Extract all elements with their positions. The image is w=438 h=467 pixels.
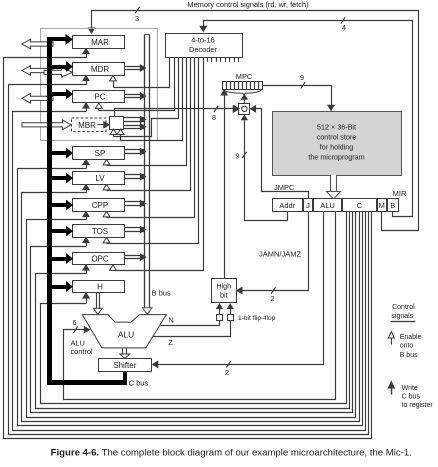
wire: PC output onto B bus [124, 93, 146, 99]
register CPP [73, 199, 125, 212]
write arrow into SP [83, 159, 89, 168]
C bus thick bottom segment [47, 371, 127, 385]
register LV [73, 172, 125, 185]
write arrow into LV [83, 184, 89, 192]
C bus thick arrow into OPC [52, 254, 72, 263]
MIR field J [304, 199, 313, 212]
register MPC [223, 72, 263, 90]
wire: decoder enable line for MDR [114, 58, 170, 88]
svg-text:B bus: B bus [400, 352, 418, 359]
write arrow into OPC [83, 265, 89, 274]
register TOS [73, 225, 125, 238]
svg-text:Memory control signals (rd, wr: Memory control signals (rd, wr, fetch) [187, 0, 308, 9]
memory data out arrow (MDR to memory) [22, 66, 53, 76]
enable-onto-B-bus arrow under CPP [103, 211, 110, 217]
wire: decoder enable line for SP [107, 58, 187, 166]
memory address out arrow (MAR to memory) [22, 39, 53, 49]
register MAR [73, 36, 125, 49]
C bus thick arrow into H [52, 282, 72, 291]
register MBR (dashed) [72, 118, 107, 132]
svg-text:6: 6 [73, 318, 77, 327]
svg-text:to register: to register [402, 402, 434, 409]
wire: decoder enable line for OPC [114, 58, 204, 271]
register H [73, 281, 125, 293]
write arrow into MDR [83, 75, 89, 84]
enable-onto-B-bus arrow under OPC [110, 265, 117, 271]
register OPC [73, 253, 125, 265]
legend: control signals [391, 304, 416, 322]
wire: decoder enable line for MBR-high [114, 58, 179, 137]
wire: MDR output onto B bus [124, 65, 146, 71]
C bus thick arrow into PC [52, 90, 72, 99]
wire: C-field write line for TOS (loop) [31, 212, 353, 413]
svg-text:B bus: B bus [152, 289, 171, 298]
svg-text:9: 9 [300, 73, 304, 82]
arrow MBR to byte register [98, 122, 110, 128]
1-bit flip-flop N [217, 315, 223, 321]
svg-text:Control: Control [392, 304, 415, 311]
wire: MBR plain output onto B bus [124, 124, 146, 130]
svg-text:9: 9 [236, 151, 240, 160]
legend solid arrow: write C bus to register [388, 382, 433, 409]
op-amp ALU (trapezoid) [82, 315, 166, 348]
svg-text:MBR: MBR [78, 121, 96, 130]
ALU to shifter arrow [120, 348, 130, 359]
C bus thick arrow into CPP [52, 201, 72, 210]
svg-text:SP: SP [95, 149, 106, 158]
register MDR [73, 63, 125, 76]
svg-text:Shifter: Shifter [113, 361, 136, 370]
C bus thick arrow into TOS [52, 227, 72, 236]
C bus thick arrow into SP [52, 149, 72, 158]
write arrow into TOS [83, 237, 89, 246]
wire: MIR ALU field to ALU control (6) [64, 212, 336, 400]
wire: C-field write line for OPC (loop) [36, 212, 350, 409]
svg-text:Write: Write [402, 385, 418, 392]
wire: decoder enable line for PC [99, 58, 175, 111]
wire: C-field write line for SP (loop) [18, 169, 363, 426]
wire: TOS output onto B bus [124, 227, 146, 233]
svg-text:MIR: MIR [393, 189, 407, 198]
svg-text:ALU: ALU [118, 330, 134, 340]
MIR field Addr [273, 199, 303, 212]
wire: CPP output onto B bus [124, 201, 146, 207]
enable-onto-B-bus arrow under LV [103, 184, 110, 190]
wire: SP output onto B bus [124, 149, 146, 155]
svg-text:ALU: ALU [320, 201, 335, 210]
wire: JAM bits from MIR J field (JAMN/JAMZ, 2) [237, 212, 309, 304]
write arrow into H [83, 293, 89, 303]
memory data in arrow (to MBR) [22, 120, 71, 130]
arrowhead: MBR line into OR [234, 106, 239, 112]
MIR field M [378, 199, 387, 212]
C bus thick arrow into MAR [47, 35, 72, 44]
write arrow into MAR [83, 48, 89, 57]
enable-onto-B-bus arrow under SP [103, 159, 110, 165]
enable-onto-B-bus arrow under TOS [103, 237, 110, 243]
control store (512 x 36-bit) [273, 112, 402, 176]
svg-text:Figure 4-6. The complete bloc: Figure 4-6. The complete block diagram o… [51, 447, 412, 458]
svg-text:TOS: TOS [92, 227, 108, 236]
wire: MIR Addr field to OR / MPC (9) [236, 115, 288, 220]
svg-text:2: 2 [225, 368, 229, 377]
svg-text:2: 2 [271, 294, 275, 303]
svg-text:onto: onto [400, 342, 414, 349]
wire: N flip-flop to high bit logic [217, 304, 223, 314]
memory data in arrow (memory to MDR) [44, 68, 72, 78]
svg-text:M: M [379, 201, 385, 210]
wire: C-field write line for MAR (loop) [4, 58, 372, 439]
memory address out arrow (PC) [22, 94, 53, 104]
svg-text:4: 4 [342, 23, 346, 32]
legend hollow arrow: enable onto B bus [388, 332, 421, 359]
wire: MBR to MPC low 8 bits (8) [115, 106, 239, 122]
wide arrow: control store word to MIR [326, 175, 340, 199]
svg-text:Decoder: Decoder [189, 45, 217, 54]
wire: MIR ALU field to shifter control (2) [153, 212, 324, 378]
wire: MIR M field to memory control (3) [88, 7, 418, 231]
brace under MPC [223, 90, 262, 95]
svg-text:MAR: MAR [91, 38, 109, 47]
decoder U-dec 4-to-16 [166, 34, 243, 58]
svg-text:signals: signals [391, 313, 413, 320]
C bus (thick) vertical [47, 37, 52, 385]
MIR field ALU [314, 199, 342, 212]
wire: JMPC from MIR J field [250, 106, 308, 199]
svg-text:8: 8 [212, 113, 216, 122]
wire: Z flip-flop to high bit logic [227, 304, 233, 314]
svg-text:1-bit flip–flop: 1-bit flip–flop [238, 315, 276, 322]
B bus arrow into ALU right input [143, 308, 152, 315]
wire: ALU N flag to flip-flop [161, 316, 220, 326]
high bit logic box [212, 279, 237, 303]
svg-text:4-to-16: 4-to-16 [191, 36, 214, 45]
C bus thick arrow into MDR [52, 62, 72, 71]
wire: OPC output onto B bus [124, 254, 146, 260]
memory registers group box [41, 29, 158, 141]
svg-text:High: High [216, 281, 231, 290]
svg-text:C: C [357, 201, 363, 210]
write arrow into PC [83, 103, 89, 111]
svg-text:OPC: OPC [91, 255, 109, 264]
wire: OR output to MPC [242, 95, 248, 104]
enable-onto-B-bus arrow under MBR (sign-extended) [110, 129, 117, 137]
wire: MBR sign-extended output onto B bus [124, 116, 146, 122]
svg-text:MPC: MPC [236, 72, 253, 81]
wire: decoder enable line for LV [107, 58, 191, 191]
wire: high bit to MPC msb [221, 90, 227, 279]
svg-text:3: 3 [135, 14, 139, 23]
wire: C-field write line for MDR (loop) [9, 85, 369, 435]
enable-onto-B-bus arrow under PC [95, 103, 102, 110]
svg-text:MDR: MDR [91, 65, 109, 74]
svg-text:bit: bit [220, 290, 228, 299]
wire: decoder enable line for TOS [107, 58, 199, 244]
svg-text:C bus: C bus [129, 378, 149, 387]
svg-text:Z: Z [168, 338, 173, 347]
wire: C-field write line for PC (loop) [13, 112, 366, 431]
OR gate for MPC high bit [239, 104, 250, 115]
wire: MPC address to control store (9) [263, 73, 335, 110]
MIR field B [388, 199, 399, 212]
svg-text:control: control [71, 347, 94, 356]
decoder unused output stubs [208, 57, 239, 62]
wire: C-field write line for H (loop) [41, 212, 347, 404]
svg-text:PC: PC [94, 93, 105, 102]
wire: decoder enable line for CPP [107, 58, 195, 218]
svg-text:C bus: C bus [402, 394, 421, 401]
B bus vertical bar [145, 34, 150, 308]
MBR byte register box [110, 117, 124, 130]
register PC [73, 91, 125, 103]
enable-onto-B-bus arrow under MBR (plain) [117, 129, 124, 141]
svg-text:Addr: Addr [279, 201, 295, 210]
wire: ALU Z flag to flip-flop [153, 321, 231, 348]
svg-text:for holding: for holding [320, 143, 354, 152]
svg-text:JMPC: JMPC [274, 183, 295, 192]
shifter [99, 359, 152, 372]
svg-text:the microprogram: the microprogram [308, 153, 364, 162]
wire: H output to ALU left input [93, 293, 102, 315]
wire: LV output onto B bus [124, 174, 146, 180]
svg-text:H: H [97, 283, 103, 292]
svg-text:JAMN/JAMZ: JAMN/JAMZ [259, 249, 302, 258]
wire: MIR B field to decoder (4) [200, 17, 412, 216]
write arrow into CPP [83, 211, 89, 219]
svg-text:B: B [390, 201, 395, 210]
enable-onto-B-bus arrow under MDR [110, 75, 117, 87]
svg-text:CPP: CPP [92, 201, 108, 210]
svg-text:LV: LV [95, 174, 105, 183]
svg-text:J: J [306, 201, 310, 210]
svg-text:N: N [168, 316, 173, 325]
svg-text:control store: control store [317, 133, 357, 142]
wire: C-field write line for CPP (loop) [27, 212, 356, 418]
svg-text:Enable: Enable [400, 334, 422, 341]
wire: decoder enable line for MBR-low [121, 58, 183, 141]
wire: C-field write line for LV (loop) [22, 193, 360, 422]
C bus thick arrow into LV [52, 174, 72, 183]
register SP [73, 147, 125, 160]
MIR field C [343, 199, 377, 212]
1-bit flip-flop Z [228, 315, 234, 321]
svg-text:512 × 36-Bit: 512 × 36-Bit [317, 123, 356, 132]
